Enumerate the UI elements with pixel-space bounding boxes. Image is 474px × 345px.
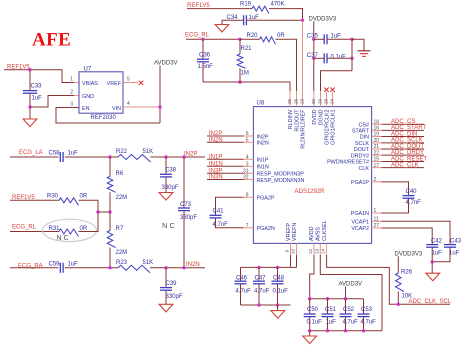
junction C50 top	[308, 297, 311, 300]
resistor R7	[109, 212, 111, 231]
wire DVDD3V3 stem / DVDD pin wire	[313, 21, 315, 91]
svg-text:470K: 470K	[271, 2, 285, 8]
wire R19 to RLDREF vertical	[269, 9, 303, 21]
svg-text:AVDD3V: AVDD3V	[339, 282, 363, 288]
svg-text:51K: 51K	[143, 149, 154, 155]
ground below C33	[23, 119, 37, 127]
ellipse NC marker around R31	[43, 219, 97, 241]
svg-text:N C: N C	[162, 221, 176, 230]
junction C73 bottom	[182, 266, 185, 269]
junction R21 bottom	[238, 80, 241, 83]
svg-text:16: 16	[374, 126, 380, 132]
svg-text:6: 6	[246, 131, 249, 137]
svg-text:RESP_MODP/IN3P: RESP_MODP/IN3P	[257, 172, 305, 178]
junction R6/R7 midpoint	[108, 210, 111, 213]
resistor R19	[252, 6, 269, 14]
resistor R30	[59, 198, 79, 206]
wire avdd cap top rail	[310, 298, 364, 300]
wire U7 VIN to AVDD3V	[123, 106, 160, 108]
svg-text:1uF: 1uF	[449, 250, 460, 256]
wire ECG_RL to R31	[10, 231, 59, 233]
wire CLKSEL route to ADC_CLK_SCL	[327, 255, 450, 304]
wire ECG_LA row	[10, 156, 58, 158]
svg-text:20: 20	[374, 138, 380, 144]
svg-text:IN2N: IN2N	[186, 262, 200, 268]
svg-text:VBIAS: VBIAS	[82, 81, 98, 87]
ground below C38	[159, 193, 173, 201]
svg-text:9: 9	[285, 250, 290, 253]
svg-text:C59: C59	[49, 261, 61, 267]
capacitor C58	[59, 152, 61, 162]
svg-text:C52: C52	[343, 307, 355, 313]
wire U8 pin 22 to net ADC_DRDY	[372, 154, 382, 156]
svg-text:AVSS: AVSS	[316, 227, 322, 241]
wire DVDD3V3 to R26	[397, 256, 399, 273]
svg-text:4: 4	[127, 101, 130, 107]
svg-text:4.7uF: 4.7uF	[254, 288, 270, 294]
svg-text:PGA2N: PGA2N	[257, 226, 275, 232]
resistor R20	[260, 37, 276, 45]
svg-text:C38: C38	[165, 167, 177, 173]
svg-text:VREFN: VREFN	[292, 223, 298, 241]
wire R30 to node	[79, 200, 99, 212]
svg-text:12: 12	[308, 248, 313, 254]
svg-text:C41: C41	[213, 208, 225, 214]
junction R6 top	[108, 155, 111, 158]
svg-text:R6: R6	[116, 171, 124, 177]
svg-text:IN1P: IN1P	[209, 155, 222, 161]
svg-text:1: 1	[70, 77, 73, 83]
svg-text:AVDD: AVDD	[309, 226, 315, 241]
svg-text:C48: C48	[273, 275, 285, 281]
capacitor C43	[444, 244, 456, 246]
wire REF1V5 to R30	[10, 199, 59, 201]
svg-text:IN2N: IN2N	[257, 141, 269, 147]
svg-text:C51: C51	[325, 307, 337, 313]
svg-text:C50: C50	[307, 307, 319, 313]
wire stub PGA1N	[372, 212, 382, 214]
wire vref cap bottom rail	[241, 304, 291, 306]
power arrow below C34	[215, 25, 229, 33]
svg-text:PWDN#/RESET#: PWDN#/RESET#	[327, 160, 369, 166]
svg-text:14: 14	[321, 248, 326, 254]
junction C35 left	[312, 38, 315, 41]
junction C34/RLDREF	[301, 19, 304, 22]
svg-text:PGA2P: PGA2P	[257, 196, 275, 202]
svg-text:ADC_START: ADC_START	[391, 125, 426, 131]
svg-text:IN3P: IN3P	[209, 169, 222, 175]
junction R21 top	[238, 38, 241, 41]
svg-text:5: 5	[246, 138, 249, 144]
wire gnd stem avdd caps	[309, 331, 311, 336]
wire C34 left to power arrow	[222, 20, 244, 24]
svg-text:RLDIN/RLDREF: RLDIN/RLDREF	[301, 109, 307, 149]
svg-text:ECG_RL: ECG_RL	[185, 33, 210, 39]
svg-text:10: 10	[291, 248, 296, 254]
svg-text:ECG_RL: ECG_RL	[12, 225, 37, 231]
junction C37 right	[350, 57, 353, 60]
wire U7 VREF no-connect	[123, 82, 138, 84]
svg-text:R31: R31	[49, 226, 61, 232]
junction C53 bottom	[362, 329, 365, 332]
svg-text:VCAP2: VCAP2	[351, 226, 369, 232]
wire bias node to R6/R7 mid	[98, 211, 110, 213]
svg-text:C58: C58	[49, 151, 61, 157]
svg-text:R19: R19	[240, 2, 252, 8]
svg-text:AVDD3V: AVDD3V	[154, 60, 178, 66]
svg-text:C33: C33	[31, 84, 43, 90]
svg-text:21: 21	[374, 144, 380, 150]
svg-text:C39: C39	[166, 281, 178, 287]
wire VREFP down to cap rail	[290, 255, 292, 267]
svg-text:3: 3	[70, 102, 73, 108]
svg-text:C42: C42	[431, 238, 443, 244]
junction C73 tap	[182, 155, 185, 158]
svg-text:ADC_SCLK: ADC_SCLK	[391, 138, 423, 144]
svg-text:0.1uF: 0.1uF	[331, 55, 347, 61]
wire U8 pin 21 to net ADC_DOUT	[372, 148, 382, 150]
svg-text:CS#: CS#	[359, 122, 370, 128]
svg-text:0R: 0R	[80, 194, 88, 200]
capacitor C48	[277, 267, 279, 281]
svg-text:51K: 51K	[143, 260, 154, 266]
svg-text:4.7uF: 4.7uF	[236, 288, 252, 294]
svg-text:1uF: 1uF	[32, 95, 43, 101]
wire C34 right	[246, 19, 302, 21]
svg-text:22M: 22M	[116, 250, 128, 256]
resistor R6	[109, 157, 111, 176]
svg-text:24: 24	[330, 98, 335, 104]
wire U8 pin 18 to net ADC_CS	[372, 123, 382, 125]
wire U8 pin 17 to net ADC_CLK	[372, 167, 382, 169]
junction C48 top	[276, 266, 279, 269]
resistor R21	[239, 39, 241, 54]
svg-text:C46: C46	[236, 275, 248, 281]
svg-text:0.1uF: 0.1uF	[273, 288, 289, 294]
resistor R23	[118, 265, 150, 273]
svg-text:C37: C37	[307, 53, 319, 59]
svg-text:330pF: 330pF	[162, 185, 179, 191]
junction C33 bottom	[28, 105, 31, 108]
svg-text:DOUT: DOUT	[354, 147, 370, 153]
svg-text:30: 30	[311, 98, 316, 104]
wire C33/GND to U7 GND pin	[30, 96, 74, 108]
capacitor C33	[29, 70, 31, 91]
net label IN3N wire to U8 pin 32	[207, 179, 244, 181]
junction R7 bottom	[108, 266, 111, 269]
wire AVSS route to bottom rail	[320, 255, 382, 331]
svg-text:DVDD3V3: DVDD3V3	[309, 16, 337, 22]
junction C39 tap	[164, 266, 167, 269]
svg-text:4.7nF: 4.7nF	[213, 222, 229, 228]
no-connect X on U7 pin 5	[139, 81, 143, 85]
svg-text:ADC_DRDY: ADC_DRDY	[391, 150, 424, 156]
ground bars (DGND)	[358, 50, 371, 52]
svg-text:GND: GND	[82, 94, 94, 100]
wire ECG_RL row	[186, 38, 240, 40]
wire stub DGND (pin 29)	[320, 91, 322, 107]
wire stub GPIO2 (pin 28) with no-connect	[326, 92, 328, 107]
svg-text:ADC_CS: ADC_CS	[391, 119, 415, 125]
wire stub VREFN (pin 10)	[296, 243, 298, 255]
op-amp U8 ADS1292R box	[253, 107, 371, 244]
junction C51 bottom	[326, 329, 329, 332]
svg-text:22: 22	[374, 150, 380, 156]
svg-text:17: 17	[374, 163, 380, 169]
wire VCAP1 to C43	[372, 220, 382, 222]
junction C36 tap	[201, 38, 204, 41]
junction bias node	[96, 210, 99, 213]
wire stub AVSS (pin 13)	[319, 243, 321, 255]
svg-text:13: 13	[314, 248, 319, 254]
wire R21 top to R20	[240, 38, 260, 40]
svg-text:R26: R26	[401, 269, 413, 275]
wire U8 pin 15 to net ADC_RESET	[372, 161, 382, 163]
svg-text:VIN: VIN	[112, 106, 121, 112]
svg-text:0R: 0R	[80, 226, 88, 232]
svg-text:18: 18	[374, 119, 380, 125]
pin number 8 (PGA2P)	[244, 196, 254, 198]
net label IN1P wire to U8 pin 4	[207, 158, 244, 160]
pin number 7 (PGA2N)	[244, 227, 254, 229]
svg-text:C53: C53	[361, 307, 373, 313]
capacitor C73	[183, 157, 185, 208]
svg-text:C47: C47	[255, 275, 267, 281]
junction C35 right	[350, 38, 353, 41]
junction C38 tap	[164, 155, 167, 158]
svg-text:VREF: VREF	[107, 81, 122, 87]
svg-text:2: 2	[70, 90, 73, 96]
junction C51 top	[326, 297, 329, 300]
wire stub RLDIN/RLDREF (pin 23)	[302, 20, 304, 106]
svg-text:330pF: 330pF	[166, 294, 183, 300]
wire to analog ground	[431, 262, 433, 273]
net label IN1N wire to U8 pin 3	[207, 165, 244, 167]
svg-text:4: 4	[246, 155, 249, 161]
svg-text:ADC_RESET: ADC_RESET	[391, 156, 427, 162]
svg-text:3: 3	[246, 162, 249, 168]
junction C52 bottom	[344, 329, 347, 332]
svg-text:1uF: 1uF	[432, 250, 443, 256]
svg-text:19: 19	[374, 132, 380, 138]
resistor R26	[396, 273, 404, 292]
svg-text:22M: 22M	[116, 195, 128, 201]
ground below C42/C43	[426, 273, 440, 281]
wire C58 to R22	[65, 156, 118, 158]
svg-text:DIN: DIN	[360, 135, 369, 141]
svg-text:4.7uF: 4.7uF	[343, 319, 359, 325]
wire PGA1P to C40	[372, 181, 382, 183]
wire stub DVDD (pin 30)	[313, 91, 315, 107]
wire stub GPIO1 (pin 24) with no-connect	[332, 92, 334, 107]
capacitor C47	[258, 267, 260, 281]
wire R23 to IN2N	[150, 267, 205, 269]
junction C47 top	[257, 266, 260, 269]
svg-text:1M: 1M	[241, 71, 249, 77]
svg-text:32: 32	[243, 175, 249, 181]
svg-text:EN: EN	[82, 106, 90, 112]
svg-text:29: 29	[318, 98, 323, 104]
svg-text:START: START	[352, 129, 370, 135]
net label IN3P wire to U8 pin 31	[207, 172, 244, 174]
net label IN2N wire to U8 pin 5	[207, 141, 244, 143]
wire ground stem	[352, 39, 364, 51]
svg-text:IN1N: IN1N	[257, 165, 269, 171]
svg-text:AFE: AFE	[32, 30, 71, 51]
ground below avdd caps	[303, 336, 317, 344]
junction AVDD3V/VIN	[158, 105, 161, 108]
svg-text:31: 31	[243, 169, 249, 175]
wire gnd stem	[277, 305, 279, 311]
wire R31 to node	[79, 212, 99, 232]
svg-text:0R: 0R	[277, 33, 285, 39]
wire C36/R21 bottom to RLDINV	[203, 82, 290, 91]
svg-text:R21: R21	[241, 46, 253, 52]
svg-text:RLDINV: RLDINV	[288, 109, 294, 129]
svg-text:C73: C73	[180, 202, 192, 208]
svg-text:CLKSEL: CLKSEL	[322, 220, 328, 241]
junction REF1V5/C33	[28, 68, 31, 71]
wire AVDD3V stem	[345, 286, 347, 298]
wire U7 EN to AVDD3V rail	[56, 108, 160, 124]
svg-text:IN2P: IN2P	[209, 131, 222, 137]
svg-text:R7: R7	[116, 226, 124, 232]
wire DGND pin route	[321, 71, 353, 91]
svg-text:4.7uF: 4.7uF	[361, 319, 377, 325]
wire C59 to R23	[65, 267, 118, 269]
svg-text:IN1N: IN1N	[209, 162, 223, 168]
capacitor C40	[403, 195, 415, 197]
wire VCAP2 to C42	[372, 227, 382, 229]
svg-text:PGA1N: PGA1N	[351, 211, 369, 217]
svg-text:1.5nF: 1.5nF	[198, 64, 214, 70]
svg-text:DRDY#: DRDY#	[351, 153, 369, 159]
resistor R22	[118, 155, 151, 163]
svg-text:C35: C35	[307, 34, 319, 40]
capacitor C37	[314, 57, 324, 59]
capacitor C52	[345, 299, 347, 314]
svg-text:DVDD: DVDD	[312, 109, 318, 124]
wire stub CLKSEL (pin 14)	[326, 243, 328, 255]
svg-text:VCAP1: VCAP1	[351, 220, 369, 226]
wire decoupling ground column	[351, 39, 353, 70]
svg-text:ADS1292R: ADS1292R	[295, 189, 326, 195]
net label IN2P wire to U8 pin 6	[207, 135, 244, 137]
capacitor C36	[202, 39, 204, 59]
wire stub RLDOUT (pin 26)	[296, 91, 298, 107]
svg-text:ADC_CLK_SCL: ADC_CLK_SCL	[409, 299, 452, 305]
capacitor C50	[309, 299, 311, 314]
svg-text:15: 15	[374, 157, 380, 163]
svg-text:R20: R20	[247, 33, 259, 39]
wire VREFN down to cap rail	[296, 255, 298, 267]
svg-text:ECG_RA: ECG_RA	[18, 263, 43, 269]
svg-text:IN2N: IN2N	[209, 138, 223, 144]
capacitor C34	[243, 15, 245, 25]
svg-text:CLK: CLK	[359, 166, 370, 172]
svg-text:ADC_CLK: ADC_CLK	[391, 162, 419, 168]
resistor R31 (not fitted)	[59, 229, 79, 237]
svg-text:U7: U7	[84, 66, 92, 72]
wire stub RLDINV (pin 25)	[289, 91, 291, 107]
svg-text:1uF: 1uF	[68, 261, 79, 267]
svg-text:IN2P: IN2P	[184, 152, 197, 158]
capacitor C51	[327, 299, 329, 314]
svg-text:25: 25	[287, 98, 292, 104]
svg-text:4.7nF: 4.7nF	[406, 200, 422, 206]
wire AVDD route to cap rail	[310, 255, 314, 299]
wire R20 to RLDOUT	[276, 39, 297, 91]
svg-text:U8: U8	[257, 100, 265, 106]
ground below vref caps	[271, 311, 285, 319]
svg-text:RESP_MODN/IN3N: RESP_MODN/IN3N	[257, 178, 305, 184]
svg-text:5: 5	[127, 77, 130, 83]
svg-text:R30: R30	[47, 194, 59, 200]
wire REF1V5 to U7 VBIAS	[4, 70, 74, 83]
svg-text:C40: C40	[406, 189, 418, 195]
junction R26/ADC_CLK_SCL	[397, 303, 400, 306]
capacitor C35	[314, 38, 324, 40]
capacitor C42	[426, 244, 438, 246]
svg-text:IN2P: IN2P	[257, 134, 269, 140]
svg-text:ADC_DIN: ADC_DIN	[391, 131, 417, 137]
svg-text:C36: C36	[199, 52, 211, 58]
capacitor C59	[59, 263, 61, 273]
wire ECG_RA row	[10, 267, 58, 269]
wire stub VREFP (pin 9)	[290, 243, 292, 255]
svg-text:GPIO1/RCLK1: GPIO1/RCLK1	[331, 110, 337, 145]
svg-text:330pF: 330pF	[180, 215, 197, 221]
wire R22 to IN2P	[151, 156, 206, 158]
svg-text:7: 7	[246, 223, 249, 229]
svg-text:ADC_DOUT: ADC_DOUT	[391, 144, 424, 150]
junction C52/AVDD3V top	[344, 297, 347, 300]
svg-text:26: 26	[294, 98, 299, 104]
wire U8 pin 19 to net ADC_DIN	[372, 136, 382, 138]
svg-text:REF2030: REF2030	[91, 115, 117, 121]
wire stub AVDD (pin 12)	[313, 243, 315, 255]
wire U8 pin 16 to net ADC_START	[372, 129, 382, 131]
junction C37 left	[312, 57, 315, 60]
capacitor C38	[165, 157, 167, 174]
junction C50 bottom	[308, 329, 311, 332]
capacitor C46	[240, 267, 242, 281]
svg-text:1uF: 1uF	[331, 34, 342, 40]
ground below C39	[159, 304, 173, 312]
svg-text:C43: C43	[450, 238, 462, 244]
svg-text:IN1P: IN1P	[257, 158, 269, 164]
wire avdd cap bottom rail	[310, 330, 382, 332]
svg-text:0.1uF: 0.1uF	[307, 319, 323, 325]
svg-text:IN3N: IN3N	[209, 175, 223, 181]
svg-text:R22: R22	[116, 149, 128, 155]
svg-text:SCLK: SCLK	[355, 141, 369, 147]
junction C47 bottom	[257, 303, 260, 306]
svg-text:ECG_LA: ECG_LA	[19, 150, 43, 156]
capacitor C53	[363, 299, 365, 314]
svg-text:28: 28	[324, 98, 329, 104]
op-amp U7 REF2030 box	[79, 72, 123, 113]
svg-text:8: 8	[246, 193, 249, 199]
wire stub U7 pin1	[74, 82, 79, 84]
wire REF1V5 to R19	[187, 8, 252, 10]
junction C48 bottom	[276, 303, 279, 306]
svg-text:R23: R23	[116, 260, 128, 266]
capacitor C41 between PGA2P and PGA2N	[216, 197, 244, 215]
capacitor C39	[165, 268, 167, 288]
svg-text:23: 23	[300, 98, 305, 104]
wire U8 pin 20 to net ADC_SCLK	[372, 142, 382, 144]
